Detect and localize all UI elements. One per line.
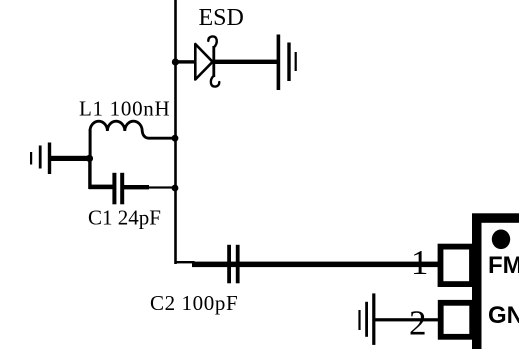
pin 1 index marker dot: [492, 230, 510, 250]
svg-text:C2 100pF: C2 100pF: [150, 291, 238, 315]
svg-text:GND: GND: [488, 302, 519, 329]
pin 2 box: [441, 303, 473, 337]
node junction antenna tap: [86, 155, 93, 162]
node junction at diode anode: [172, 58, 179, 65]
IC body border: [472, 213, 519, 349]
wire to C1 left plate: [89, 185, 113, 190]
capacitor C2 plates: [227, 245, 231, 283]
wire C1 right plate to main line: [124, 185, 149, 189]
diode D-ESD triangle: [195, 44, 212, 80]
diode D-ESD cathode bar with hooks: [208, 36, 216, 47]
svg-text:ESD: ESD: [199, 5, 244, 31]
node junction C1 right at main wire: [172, 185, 179, 192]
wire main vertical antenna net: [174, 0, 177, 264]
wire pin 2 ground to pin box: [374, 318, 438, 321]
wire left ground to node: [50, 156, 90, 161]
inductor L1 coil: [90, 121, 174, 138]
wire corner bottom of main vertical: [175, 261, 195, 263]
svg-text:1: 1: [411, 243, 429, 282]
capacitor C1 plates: [112, 173, 116, 205]
wire diode anode: [175, 60, 195, 63]
ground GND left antenna: [30, 152, 32, 165]
svg-text:FMI: FMI: [488, 252, 519, 279]
wire horizontal to pin 1: [192, 262, 438, 268]
svg-text:C1 24pF: C1 24pF: [88, 206, 161, 230]
wire L1 left terminal down to node: [89, 130, 92, 160]
wire diode cathode to ground: [214, 60, 277, 64]
svg-text:2: 2: [409, 304, 427, 343]
wire node down to C1 branch: [88, 158, 91, 189]
pin 1 box: [441, 247, 473, 285]
ground GND right of ESD diode: [277, 35, 281, 91]
svg-text:L1 100nH: L1 100nH: [79, 97, 170, 121]
ground GND at pin 2: [358, 310, 360, 330]
node junction L1 right at main wire: [172, 135, 179, 142]
